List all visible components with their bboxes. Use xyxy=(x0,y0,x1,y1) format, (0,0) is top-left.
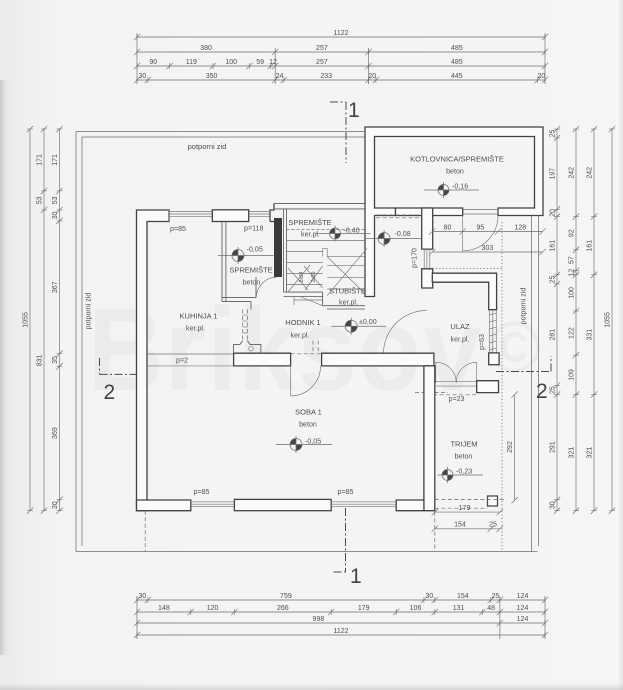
svg-text:57: 57 xyxy=(568,256,575,264)
svg-text:321: 321 xyxy=(586,447,593,459)
svg-text:759: 759 xyxy=(280,593,292,600)
svg-text:124: 124 xyxy=(517,616,529,623)
potporni zid hidden edge (dotted) right of trijem xyxy=(501,222,503,550)
chimney box with flue xyxy=(234,341,261,353)
svg-text:161: 161 xyxy=(549,240,556,252)
chimney shaft dashed ladder xyxy=(243,310,248,341)
stair treads upper (dashed + solid) xyxy=(287,230,365,285)
svg-text:53: 53 xyxy=(36,196,43,204)
dim 154/25 below trijem xyxy=(432,522,504,532)
svg-text:1122: 1122 xyxy=(333,30,348,37)
svg-text:242: 242 xyxy=(586,167,593,179)
svg-text:2: 2 xyxy=(536,380,548,403)
scan artifact: bottom edge shadow xyxy=(0,683,623,690)
svg-text:-0,23: -0,23 xyxy=(456,468,472,476)
stair entry steps xyxy=(294,297,323,306)
svg-text:2x24: 2x24 xyxy=(299,271,305,282)
threshold p=2 kuhinja-soba (thin lines) xyxy=(147,354,234,366)
svg-text:100: 100 xyxy=(568,287,575,299)
dim 179 below trijem xyxy=(432,505,504,515)
svg-text:124: 124 xyxy=(517,593,529,600)
wall: ulaz south-east wall piece xyxy=(477,381,499,393)
dim chain bottom row 1 xyxy=(134,593,548,603)
svg-text:24: 24 xyxy=(276,73,284,80)
svg-text:-0,05: -0,05 xyxy=(247,246,263,254)
svg-text:ker.pl.: ker.pl. xyxy=(339,299,358,307)
svg-text:367: 367 xyxy=(52,281,59,293)
svg-text:485: 485 xyxy=(451,59,463,66)
svg-text:-0,40: -0,40 xyxy=(344,227,360,235)
svg-text:p=85: p=85 xyxy=(194,488,210,496)
svg-text:beton: beton xyxy=(446,168,464,176)
wall: ulaz north wall xyxy=(432,273,496,310)
svg-text:171: 171 xyxy=(52,154,59,166)
svg-text:KUHINJA 1: KUHINJA 1 xyxy=(180,312,218,321)
elevation symbol spremiste -0.05 xyxy=(218,246,274,265)
svg-text:303: 303 xyxy=(482,245,494,252)
wall: soba south wall west pier xyxy=(137,500,191,511)
svg-text:2: 2 xyxy=(104,381,116,404)
svg-text:2x20: 2x20 xyxy=(311,271,317,282)
section line 1 bottom xyxy=(334,508,362,588)
wall: soba south wall middle pier xyxy=(234,499,331,510)
svg-text:20: 20 xyxy=(368,73,376,80)
trijem column xyxy=(488,496,498,506)
potporni zid (retaining wall) outline, top + left double thin lines xyxy=(76,132,538,552)
window north small (59) xyxy=(249,212,270,217)
window p=85 north (triple glazing lines) xyxy=(169,210,212,222)
wall: soba north wall west piece (with kuhinja) xyxy=(234,353,291,366)
svg-text:831: 831 xyxy=(36,354,43,366)
wall: black filled partition (24) between spremiste and stair xyxy=(274,218,282,277)
svg-text:beton: beton xyxy=(455,453,473,461)
svg-text:100: 100 xyxy=(225,59,237,66)
svg-text:1055: 1055 xyxy=(22,312,29,328)
svg-text:SPREMIŠTE: SPREMIŠTE xyxy=(229,266,272,275)
dim chain end extension lines xyxy=(137,33,545,639)
svg-text:12: 12 xyxy=(568,269,575,277)
dashed drop below building left xyxy=(144,511,146,552)
dim chain top row 4 xyxy=(134,73,548,83)
svg-text:p=85: p=85 xyxy=(338,488,354,496)
potporni zid right side double thin lines xyxy=(532,216,539,552)
svg-text:35: 35 xyxy=(52,356,59,364)
section line 2 left xyxy=(100,358,146,404)
dim chain right inner xyxy=(549,126,560,514)
svg-text:281: 281 xyxy=(549,329,556,341)
elevation symbol stubiste -0.40 xyxy=(316,226,371,242)
svg-text:ULAZ: ULAZ xyxy=(450,322,470,331)
door swing arc hodnik to ulaz xyxy=(384,311,427,354)
svg-text:257: 257 xyxy=(316,45,328,52)
section line 1 top xyxy=(330,99,360,163)
svg-text:25: 25 xyxy=(549,130,556,138)
soba door: dotted head, leaf and swing arc xyxy=(291,353,322,355)
svg-text:ker.pl.: ker.pl. xyxy=(291,332,310,340)
hidden lintel dashes over corridor xyxy=(376,215,422,218)
watermark xyxy=(88,284,541,416)
svg-text:90: 90 xyxy=(149,59,157,66)
svg-text:p=85: p=85 xyxy=(170,225,186,233)
wall: thin north partition over stair box (double line) xyxy=(274,203,365,292)
svg-text:53: 53 xyxy=(52,196,59,204)
elevation symbol corridor -0.08 xyxy=(364,230,421,247)
svg-text:1122: 1122 xyxy=(333,628,348,635)
svg-text:120: 120 xyxy=(207,605,219,612)
wall: ulaz east wall south pier xyxy=(489,353,499,365)
window p=85 south-west xyxy=(191,502,235,507)
svg-text:STUBIŠTE: STUBIŠTE xyxy=(329,287,366,296)
dim chain left inner xyxy=(52,126,63,514)
elevation symbol trijem -0.23 xyxy=(438,467,484,483)
svg-text:ker.pl.: ker.pl. xyxy=(186,325,205,333)
svg-text:SPREMIŠTE: SPREMIŠTE xyxy=(288,218,331,227)
wall: north pier between windows xyxy=(212,210,248,222)
svg-text:124: 124 xyxy=(517,605,529,612)
svg-text:30: 30 xyxy=(139,593,147,600)
svg-text:445: 445 xyxy=(451,73,463,80)
svg-text:998: 998 xyxy=(313,616,325,623)
kotlovnica door opening sill lines xyxy=(463,210,498,215)
stair direction diagonals (X) xyxy=(288,248,367,295)
svg-text:25: 25 xyxy=(492,593,500,600)
svg-text:48: 48 xyxy=(487,605,495,612)
svg-text:12: 12 xyxy=(269,59,277,66)
svg-text:106: 106 xyxy=(410,605,422,612)
svg-text:321: 321 xyxy=(568,447,575,459)
elevation symbol hodnik +-0.00 xyxy=(331,318,386,335)
svg-text:±0,00: ±0,00 xyxy=(359,318,377,326)
svg-text:59: 59 xyxy=(256,59,264,66)
elevation symbol soba -0.05 xyxy=(276,436,332,453)
svg-text:1: 1 xyxy=(348,99,360,122)
dim chain top row 1 xyxy=(134,30,548,40)
potporni zid hidden edge (dotted) above ulaz xyxy=(433,268,503,270)
wall: corridor east wall (lower part) xyxy=(422,269,433,288)
door swing arc spremiste(beton) xyxy=(256,277,277,298)
wall: north wall west corner pier xyxy=(137,210,170,511)
svg-text:161: 161 xyxy=(586,240,593,252)
dim 303 xyxy=(429,245,546,255)
dim chain right third xyxy=(586,126,597,514)
svg-text:30: 30 xyxy=(549,501,556,509)
svg-text:25: 25 xyxy=(549,275,556,283)
svg-text:148: 148 xyxy=(158,605,170,612)
dim chain left middle xyxy=(36,126,47,514)
dim chain left outer 1055 xyxy=(22,126,33,514)
dim chain bottom row 2 xyxy=(134,605,548,615)
svg-text:HODNIK 1: HODNIK 1 xyxy=(285,318,320,327)
svg-text:119: 119 xyxy=(186,59,197,66)
svg-text:154: 154 xyxy=(454,522,466,529)
svg-text:122: 122 xyxy=(568,327,575,339)
dashed stubs below stair box xyxy=(313,341,318,354)
section line 2 right xyxy=(496,356,551,403)
svg-text:p=63: p=63 xyxy=(478,334,486,350)
svg-text:179: 179 xyxy=(358,605,370,612)
svg-text:242: 242 xyxy=(568,167,575,179)
dim chain top row 2 xyxy=(134,45,548,55)
svg-text:p=170: p=170 xyxy=(411,248,419,268)
wall: kotlovnica south wall pier west of door xyxy=(396,208,463,216)
dim chain right second xyxy=(568,126,579,514)
svg-text:potporni zid: potporni zid xyxy=(85,293,93,330)
svg-text:KOTLOVNICA/SPREMIŠTE: KOTLOVNICA/SPREMIŠTE xyxy=(410,155,504,164)
svg-text:30: 30 xyxy=(52,211,59,219)
stair box bottom double lines xyxy=(284,292,366,309)
svg-text:1055: 1055 xyxy=(604,312,611,328)
wall: soba south wall east pier xyxy=(396,500,424,511)
wall: soba east wall xyxy=(424,366,435,511)
svg-text:p=118: p=118 xyxy=(244,225,263,233)
scan artifact: left edge shadow xyxy=(0,80,10,655)
dim 292 vertical right of trijem xyxy=(507,391,518,503)
svg-text:potporni zid: potporni zid xyxy=(520,288,528,325)
svg-text:369: 369 xyxy=(52,427,59,439)
svg-text:179: 179 xyxy=(459,505,471,512)
svg-text:30: 30 xyxy=(52,501,59,509)
svg-text:20: 20 xyxy=(549,209,556,217)
svg-text:1: 1 xyxy=(350,565,362,588)
svg-text:80: 80 xyxy=(444,224,452,231)
svg-text:30: 30 xyxy=(139,73,147,80)
scan artifact: right edge shadow xyxy=(618,0,623,690)
ulaz entrance double door: leaves and swing arcs xyxy=(436,362,481,386)
dim chain right outer 1055 xyxy=(604,126,615,514)
svg-text:30: 30 xyxy=(426,593,434,600)
dim chain top row 3 xyxy=(134,59,548,69)
svg-text:95: 95 xyxy=(477,224,485,231)
svg-text:380: 380 xyxy=(200,45,212,52)
window p=85 south-east xyxy=(331,502,396,507)
wall: soba north wall east piece xyxy=(322,353,434,366)
svg-text:-0,16: -0,16 xyxy=(452,183,468,191)
svg-text:109: 109 xyxy=(568,369,575,381)
wall: kotlovnica west+north+east+south walls xyxy=(365,127,543,297)
svg-text:131: 131 xyxy=(453,605,465,612)
svg-text:92: 92 xyxy=(568,229,575,237)
svg-text:266: 266 xyxy=(277,605,289,612)
svg-text:-0,08: -0,08 xyxy=(395,230,411,238)
dim chain bottom row 4 xyxy=(134,628,548,638)
svg-text:ker.pl.: ker.pl. xyxy=(301,231,320,239)
svg-text:292: 292 xyxy=(507,441,514,453)
svg-text:25: 25 xyxy=(489,522,497,529)
svg-text:331: 331 xyxy=(586,329,593,341)
svg-text:291: 291 xyxy=(549,441,556,453)
svg-text:SOBA 1: SOBA 1 xyxy=(295,408,322,417)
dashes south of ulaz xyxy=(415,393,477,395)
svg-text:-0,05: -0,05 xyxy=(305,438,321,446)
svg-text:25: 25 xyxy=(549,386,556,394)
svg-text:p=23: p=23 xyxy=(449,395,465,403)
kotlovnica door swing arc xyxy=(463,216,498,251)
window p=170 (corridor east wall) xyxy=(424,249,430,269)
wall: corridor east wall (upper part) xyxy=(422,208,433,249)
svg-text:485: 485 xyxy=(451,45,463,52)
svg-text:ker.pl.: ker.pl. xyxy=(451,336,470,344)
dim chain bottom row 3 xyxy=(134,616,548,626)
trijem south dashed edges xyxy=(435,500,505,509)
window p=63 (ulaz east wall, triple lines + ticks) xyxy=(489,310,496,353)
svg-text:171: 171 xyxy=(36,154,43,166)
wall: spremiste(beton) thin partitions xyxy=(222,222,256,310)
svg-text:128: 128 xyxy=(514,224,526,231)
dim 80/95/128 below kotlovnica xyxy=(429,224,546,234)
wall: jog piece at east end of north wall xyxy=(270,203,274,221)
stair flight box with treads xyxy=(323,248,365,289)
svg-text:p=2: p=2 xyxy=(176,357,188,365)
svg-text:TRIJEM: TRIJEM xyxy=(450,440,477,449)
svg-text:197: 197 xyxy=(549,168,556,180)
svg-text:20: 20 xyxy=(538,73,546,80)
svg-text:350: 350 xyxy=(206,73,218,80)
svg-text:257: 257 xyxy=(316,59,328,66)
svg-text:beton: beton xyxy=(299,421,317,429)
svg-text:beton: beton xyxy=(243,279,261,287)
svg-text:154: 154 xyxy=(457,593,469,600)
svg-text:233: 233 xyxy=(320,73,332,80)
dashed drop below trijem right xyxy=(434,512,436,552)
svg-text:potporni zid: potporni zid xyxy=(188,142,227,151)
elevation symbol kotlovnica -0.16 xyxy=(424,182,479,198)
